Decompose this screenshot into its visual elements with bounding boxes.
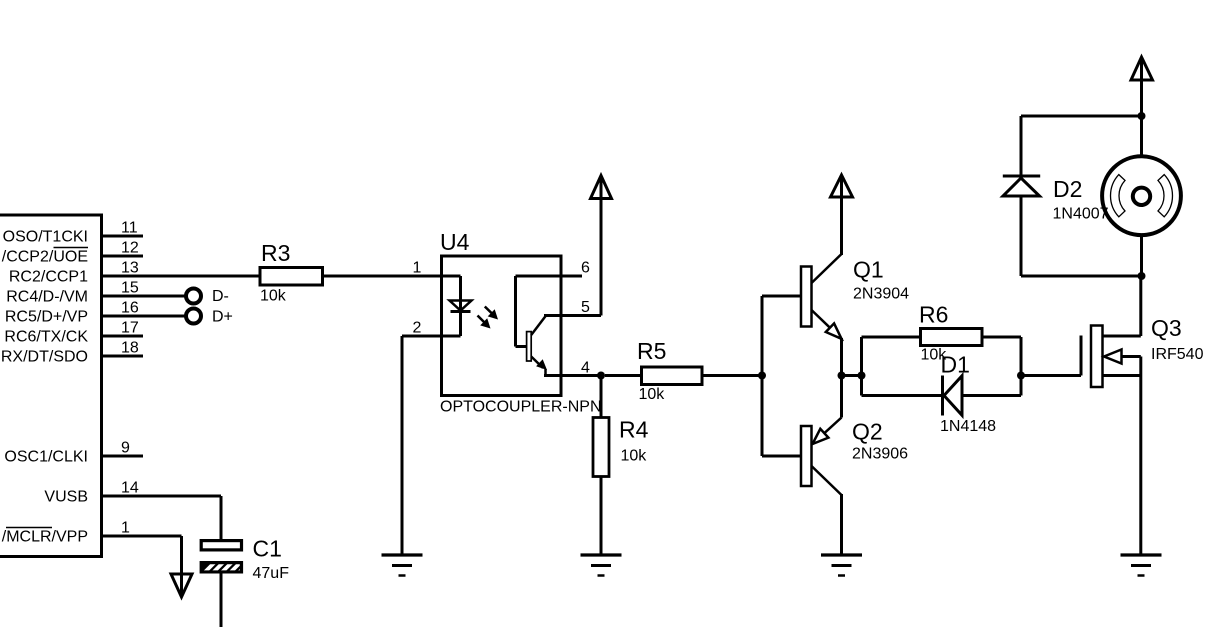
- transistor Q3 gate bar: [1080, 336, 1083, 376]
- svg-text:RX/DT/SDO: RX/DT/SDO: [1, 349, 88, 366]
- resistor R4: [593, 376, 609, 554]
- svg-text:13: 13: [121, 260, 139, 277]
- pin 12 CCP2/UOE: [101, 255, 143, 258]
- svg-text:16: 16: [121, 300, 139, 317]
- svg-text:1N4007: 1N4007: [1053, 206, 1109, 223]
- svg-text:18: 18: [121, 340, 139, 357]
- transistor Q3 drain lead: [1103, 276, 1141, 336]
- wire U4 pin2: [402, 336, 461, 554]
- transistor Q3 body arrow: [1104, 350, 1141, 364]
- svg-text:11: 11: [121, 220, 138, 237]
- svg-text:IRF540: IRF540: [1151, 346, 1204, 363]
- svg-text:Q3: Q3: [1151, 315, 1182, 341]
- svg-text:17: 17: [121, 320, 139, 337]
- power VCC arrow (above Q1): [831, 175, 853, 255]
- svg-text:12: 12: [121, 240, 139, 257]
- junction pin4/R5/R4: [597, 372, 605, 380]
- U4 LED cathode lead: [459, 312, 462, 337]
- svg-text:47uF: 47uF: [253, 565, 290, 582]
- svg-text:/CCP2/UOE: /CCP2/UOE: [2, 249, 88, 266]
- pin 9 OSC1/CLKI: [101, 455, 143, 458]
- power VCC arrow (above U4 pin 5): [591, 176, 612, 316]
- svg-text:10k: 10k: [621, 448, 648, 465]
- svg-text:/MCLR/VPP: /MCLR/VPP: [2, 529, 88, 546]
- wire to Q3 gate: [1021, 374, 1081, 377]
- svg-text:D+: D+: [212, 309, 233, 326]
- resistor R5: [605, 367, 762, 385]
- diode D1: [862, 376, 1022, 416]
- pin 13 RC2/CCP1: [101, 275, 260, 278]
- svg-text:5: 5: [581, 299, 590, 316]
- svg-text:2N3904: 2N3904: [853, 286, 909, 303]
- svg-text:RC6/TX/CK: RC6/TX/CK: [4, 329, 88, 346]
- svg-text:U4: U4: [440, 229, 470, 255]
- resistor R6: [862, 329, 1022, 346]
- svg-text:9: 9: [121, 440, 130, 457]
- U4 light arrow 1: [485, 307, 498, 320]
- pin 14 VUSB: [101, 495, 221, 498]
- transistor Q3 source lead: [1103, 357, 1141, 554]
- svg-text:OPTOCOUPLER-NPN: OPTOCOUPLER-NPN: [440, 399, 602, 416]
- svg-text:D1: D1: [941, 352, 970, 378]
- resistor R3: [260, 268, 323, 286]
- junction base rail: [758, 372, 766, 380]
- U4 LED triangle: [450, 301, 472, 311]
- node D- terminal: [186, 289, 201, 304]
- svg-text:RC2/CCP1: RC2/CCP1: [9, 269, 88, 286]
- transistor Q1 base bar: [801, 267, 812, 327]
- svg-text:OSO/T1CKI: OSO/T1CKI: [3, 229, 88, 246]
- IC body (microcontroller, clipped at left edge): [0, 215, 102, 557]
- ground (under Q3): [1121, 555, 1162, 576]
- pin 11 OSO/T1CKI: [101, 235, 143, 238]
- U4 phototransistor base bar: [527, 332, 532, 361]
- svg-text:R5: R5: [637, 338, 666, 364]
- svg-text:2N3906: 2N3906: [852, 446, 908, 463]
- U4 phototransistor emitter to pin 4: [531, 357, 601, 376]
- svg-text:RC5/D+/VP: RC5/D+/VP: [5, 309, 88, 326]
- svg-text:1: 1: [121, 520, 130, 537]
- diode D2: [1003, 116, 1040, 276]
- ground (under R4): [581, 555, 622, 576]
- transistor Q2 collector: [812, 466, 842, 554]
- svg-text:Q2: Q2: [852, 419, 883, 445]
- svg-text:2: 2: [413, 320, 422, 337]
- U4 LED anode lead: [459, 276, 462, 311]
- motor M1: [1102, 116, 1181, 276]
- wire emitters node to R6/D1: [842, 374, 862, 377]
- svg-text:OSC1/CLKI: OSC1/CLKI: [4, 449, 88, 466]
- svg-text:10k: 10k: [260, 288, 287, 305]
- svg-text:R6: R6: [919, 301, 948, 327]
- U4 light arrow 2: [478, 316, 491, 329]
- power arrow down (MCLR): [171, 536, 192, 597]
- svg-text:4: 4: [581, 360, 590, 377]
- svg-text:R3: R3: [261, 240, 290, 266]
- transistor Q2 emitter: [813, 376, 842, 445]
- svg-text:6: 6: [581, 260, 590, 277]
- svg-text:14: 14: [121, 480, 139, 497]
- svg-text:10k: 10k: [639, 386, 666, 403]
- svg-text:RC4/D-/VM: RC4/D-/VM: [6, 289, 88, 306]
- op-amp? no: optocoupler U4 body: [442, 256, 562, 396]
- U4 phototransistor base lead from pin 6: [516, 276, 583, 347]
- ground (under Q2): [821, 555, 862, 576]
- power VCC arrow (top right): [1131, 57, 1153, 116]
- junction R6/D1 right: [1017, 337, 1025, 396]
- svg-text:D2: D2: [1053, 176, 1082, 202]
- svg-text:VUSB: VUSB: [44, 489, 88, 506]
- pin 1 /MCLR/VPP: [101, 535, 182, 538]
- junction motor bottom: [1138, 272, 1146, 280]
- svg-text:R4: R4: [619, 417, 649, 443]
- junction R6/D1 left: [858, 337, 866, 396]
- pin 15 RC4/D-/VM: [101, 295, 185, 298]
- svg-text:15: 15: [121, 280, 139, 297]
- U4 LED cathode bar: [451, 310, 471, 313]
- pin 16 RC5/D+/VP: [101, 315, 185, 318]
- pin 17 RC6/TX/CK: [101, 335, 143, 338]
- svg-text:1: 1: [413, 260, 422, 277]
- svg-text:Q1: Q1: [853, 257, 884, 283]
- svg-text:C1: C1: [253, 536, 282, 562]
- wire top rail to D2: [1021, 115, 1142, 118]
- U4 phototransistor collector to pin 5: [531, 316, 601, 336]
- transistor Q2 base bar: [801, 426, 812, 486]
- junction emitters node: [838, 372, 846, 380]
- pin 18 RX/DT/SDO: [101, 355, 143, 358]
- transistor Q3 channel bar: [1091, 326, 1103, 388]
- wire bottom rail D2 to Q3 drain: [1021, 275, 1142, 278]
- ground (under U4 pin2): [382, 555, 423, 576]
- wire base rail Q1/Q2: [762, 296, 801, 456]
- transistor Q1 emitter: [812, 310, 842, 376]
- svg-text:D-: D-: [212, 288, 229, 305]
- wire R3 to U4 pin1: [323, 275, 461, 278]
- svg-text:1N4148: 1N4148: [940, 418, 996, 435]
- node D+ terminal: [186, 309, 201, 324]
- transistor Q1 collector: [812, 254, 842, 283]
- junction motor top: [1138, 112, 1146, 120]
